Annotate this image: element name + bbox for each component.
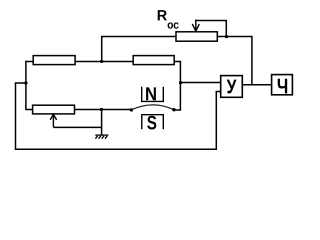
wire outer loop to amplifier lower input (16, 83, 221, 149)
potentiometer Roc wiper arrow (192, 20, 199, 32)
label Roc (158, 10, 179, 29)
wire R1 to R2 (75, 61, 133, 63)
resistor R1 (33, 56, 75, 65)
amplifier U box (221, 76, 243, 98)
magnet pole N (142, 87, 164, 102)
wire amplifier to frequency meter (242, 84, 271, 86)
node junction string left (130, 108, 133, 111)
wire node A up to Roc left (102, 37, 176, 62)
node junction bridge left (24, 81, 27, 84)
wire R2 right down to string node (174, 62, 180, 83)
wire R3 to string left node (75, 109, 132, 111)
wire bridge top left stub (26, 61, 33, 63)
wire Roc right to amplifier output line (217, 37, 252, 85)
node junction string right (172, 108, 175, 111)
wire bridge left vertical (25, 61, 27, 110)
potentiometer R3 wiper arrow (50, 114, 56, 127)
vibrating string wire (131, 105, 174, 110)
node junction amplifier input (179, 81, 182, 84)
label Ch (278, 79, 288, 94)
magnet pole S (142, 115, 164, 130)
node junction ground (100, 108, 103, 111)
resistor R2 (133, 56, 174, 65)
ground (95, 135, 108, 139)
wire wiper R3 to ground line (53, 126, 101, 128)
label S (147, 116, 156, 130)
frequency meter Ch box (272, 75, 293, 95)
resistor R3 potentiometer (33, 105, 75, 114)
wire string right up to amplifier input (174, 83, 221, 111)
wire bridge bottom left stub (26, 109, 33, 111)
potentiometer Roc body (176, 32, 217, 41)
wire wiper feedback top (196, 21, 227, 37)
label N (146, 87, 156, 100)
node A junction (100, 60, 103, 63)
node junction Roc right (225, 35, 228, 38)
wire ground drop (101, 110, 103, 136)
label U (227, 80, 237, 94)
